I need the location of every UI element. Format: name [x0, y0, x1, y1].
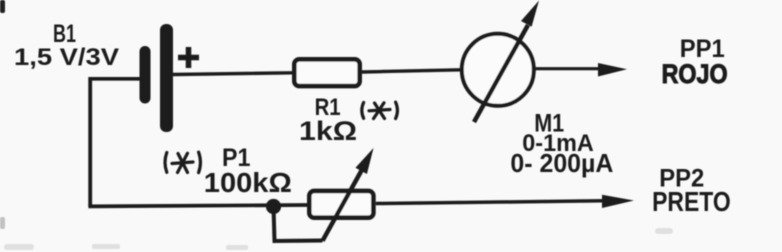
- arrow to test point PP1: [598, 63, 627, 77]
- svg-text:1kΩ: 1kΩ: [299, 116, 357, 146]
- wire: left horizontal from vertical bus to battery negative: [89, 77, 141, 81]
- wire: battery positive to resistor R1: [173, 73, 292, 75]
- potentiometer P1 wiper arrow: [323, 166, 365, 241]
- wire: meter M1 to PP1 arrow: [535, 67, 600, 70]
- svg-text:100kΩ: 100kΩ: [204, 167, 292, 198]
- node: junction dot on bottom wire: [266, 199, 281, 214]
- scan noise bottom band: [4, 228, 673, 250]
- meter M1 circle: [462, 34, 534, 106]
- svg-text:1,5 V/3V: 1,5 V/3V: [14, 44, 119, 71]
- battery B1: [140, 24, 200, 132]
- resistor R1: [294, 59, 359, 86]
- svg-text:0- 200µA: 0- 200µA: [510, 148, 613, 178]
- wire: resistor R1 to meter M1: [362, 70, 461, 72]
- svg-text:PRETO: PRETO: [652, 186, 731, 217]
- arrow to test point PP2: [602, 195, 634, 208]
- wire: potentiometer P1 to PP2 arrow: [376, 201, 603, 204]
- svg-text:ROJO: ROJO: [662, 59, 728, 89]
- scan artifact bottom-left edge: [0, 217, 5, 229]
- scan artifact top-left corner: [0, 0, 5, 13]
- wire: left vertical bus: [88, 77, 92, 207]
- wire: wiper return loop of P1: [274, 207, 323, 242]
- asterisk note mark (top): [362, 102, 398, 119]
- wire: bottom horizontal from bus to potentiometer: [88, 205, 307, 206]
- meter M1 needle: [474, 25, 528, 122]
- asterisk note mark (bottom): [165, 152, 200, 173]
- potentiometer P1 body: [309, 191, 373, 218]
